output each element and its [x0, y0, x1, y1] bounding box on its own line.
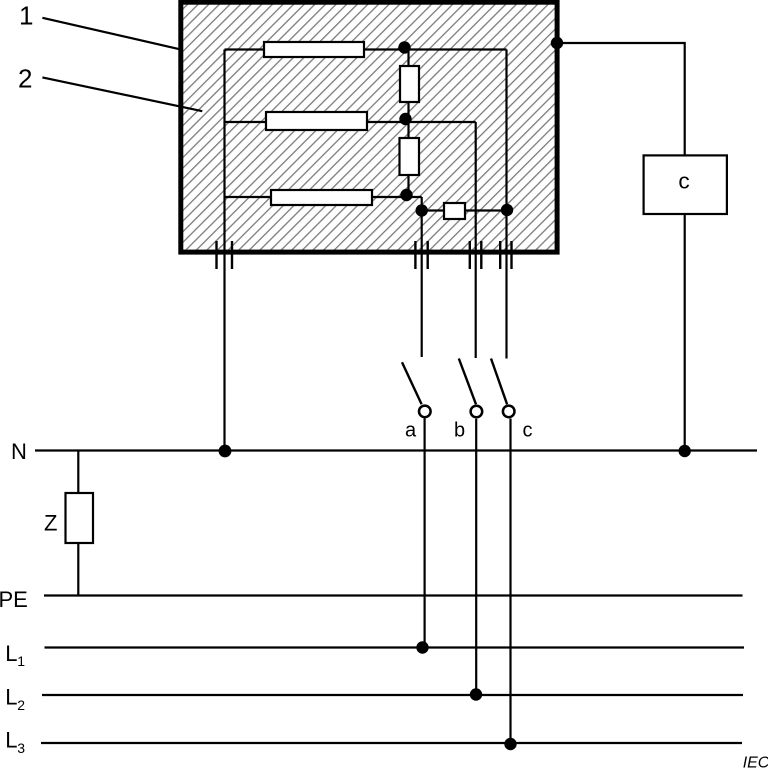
svg-text:L: L	[5, 728, 17, 753]
svg-text:N: N	[11, 439, 27, 464]
svg-text:L: L	[5, 685, 17, 710]
svg-text:1: 1	[19, 1, 33, 31]
svg-text:c: c	[523, 420, 533, 442]
svg-text:Z: Z	[44, 511, 57, 536]
svg-text:L: L	[5, 641, 17, 666]
svg-text:b: b	[454, 420, 465, 442]
svg-text:PE: PE	[0, 587, 28, 612]
svg-text:c: c	[678, 168, 689, 193]
svg-text:IEC: IEC	[743, 755, 768, 772]
svg-text:3: 3	[17, 740, 25, 756]
svg-text:a: a	[405, 420, 417, 442]
svg-text:2: 2	[18, 64, 32, 94]
svg-text:1: 1	[17, 653, 25, 669]
svg-text:2: 2	[17, 697, 25, 713]
